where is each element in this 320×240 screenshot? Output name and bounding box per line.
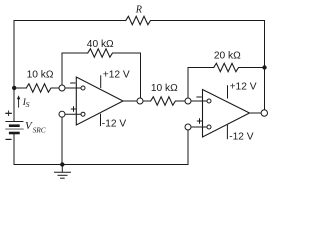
op-amp U1 minus sign bbox=[71, 82, 75, 84]
wire right rail bbox=[264, 21, 266, 110]
op-amp U2 -12V supply tick bbox=[226, 125, 228, 138]
minus sign of source bbox=[6, 138, 11, 140]
wire 20k rail left bbox=[188, 67, 214, 69]
wire terminal to pin bbox=[65, 87, 81, 89]
wire 10k to op1 minus terminal bbox=[52, 87, 59, 89]
wire 40k feedback rail right bbox=[114, 52, 141, 54]
wire to 10k R2 bbox=[143, 100, 151, 102]
op-amp U1 minus input terminal bbox=[59, 85, 65, 91]
op-amp U2 plus input terminal bbox=[185, 124, 191, 130]
op-amp U2 triangle bbox=[203, 90, 250, 138]
wire left rail lower bbox=[13, 133, 15, 165]
wire op1 output bbox=[123, 100, 137, 102]
op-amp U2 minus sign bbox=[197, 96, 201, 98]
wire op2 plus terminal down bbox=[187, 130, 189, 165]
resistor 10k middle bbox=[151, 97, 177, 105]
wire op2 output bbox=[250, 112, 262, 114]
svg-text:R: R bbox=[135, 5, 143, 16]
resistor 40k bbox=[88, 49, 114, 57]
node 20k / right rail bbox=[262, 65, 266, 69]
node ground junction bbox=[60, 162, 64, 166]
node at left rail / 10k bbox=[12, 86, 16, 90]
op-amp U1 triangle bbox=[76, 77, 123, 125]
op-amp U1 output terminal bbox=[137, 98, 143, 104]
svg-text:-12 V: -12 V bbox=[229, 131, 254, 142]
arrow I_S bbox=[18, 99, 20, 108]
wire op1 plus terminal down to ground rail bbox=[61, 117, 63, 164]
op-amp U1 minus pin circle bbox=[81, 86, 85, 90]
resistor 10k left bbox=[26, 84, 52, 92]
op-amp U1 plus pin circle bbox=[81, 112, 85, 116]
svg-text:+12 V: +12 V bbox=[230, 81, 257, 92]
plus sign of source bbox=[6, 112, 11, 114]
battery plate short thick lower bbox=[10, 132, 18, 135]
battery plate short thick upper bbox=[10, 124, 18, 127]
svg-text:S: S bbox=[26, 100, 30, 109]
wire top rail left of R bbox=[14, 20, 126, 22]
op-amp U2 minus input terminal bbox=[185, 98, 191, 104]
wire 10k to op2 minus terminal bbox=[177, 100, 185, 102]
wire bottom rail bbox=[14, 164, 188, 166]
op-amp U1 feedback tap wire up bbox=[61, 53, 63, 85]
svg-text:10 kΩ: 10 kΩ bbox=[151, 83, 178, 94]
svg-text:10 kΩ: 10 kΩ bbox=[27, 70, 54, 81]
resistor R bbox=[126, 16, 153, 24]
wire 20k feedback tap up bbox=[187, 68, 189, 99]
resistor 20k bbox=[214, 63, 240, 71]
wire 20k rail right bbox=[240, 67, 265, 69]
wire left rail upper bbox=[13, 21, 15, 122]
svg-text:+12 V: +12 V bbox=[103, 70, 130, 81]
wire 40k feedback rail left bbox=[62, 52, 88, 54]
ground bbox=[61, 165, 63, 173]
op-amp U1 -12V supply tick bbox=[100, 114, 102, 125]
svg-text:SRC: SRC bbox=[33, 126, 46, 135]
svg-text:40 kΩ: 40 kΩ bbox=[87, 39, 114, 50]
op-amp U2 minus pin circle bbox=[207, 99, 211, 103]
op-amp U2 output terminal bbox=[261, 110, 267, 116]
op-amp U1 +12V supply tick bbox=[100, 76, 102, 88]
wire terminal to pin bbox=[191, 100, 207, 102]
wire terminal to pin bbox=[191, 126, 207, 128]
wire 40k down to op1 output bbox=[140, 53, 142, 98]
op-amp U1 plus sign bbox=[71, 108, 75, 110]
current source battery V_SRC plate long top bbox=[6, 121, 23, 123]
op-amp U2 plus pin circle bbox=[207, 125, 211, 129]
op-amp U2 plus sign bbox=[197, 120, 201, 122]
wire to 10k R1 bbox=[14, 87, 26, 89]
wire top rail right of R bbox=[152, 20, 264, 22]
wire terminal to pin bbox=[65, 113, 81, 115]
svg-text:20 kΩ: 20 kΩ bbox=[214, 50, 241, 61]
op-amp U1 plus input terminal bbox=[59, 111, 65, 117]
battery plate long lower bbox=[6, 128, 23, 130]
op-amp U2 +12V supply tick bbox=[227, 86, 229, 98]
svg-text:-12 V: -12 V bbox=[102, 118, 127, 129]
